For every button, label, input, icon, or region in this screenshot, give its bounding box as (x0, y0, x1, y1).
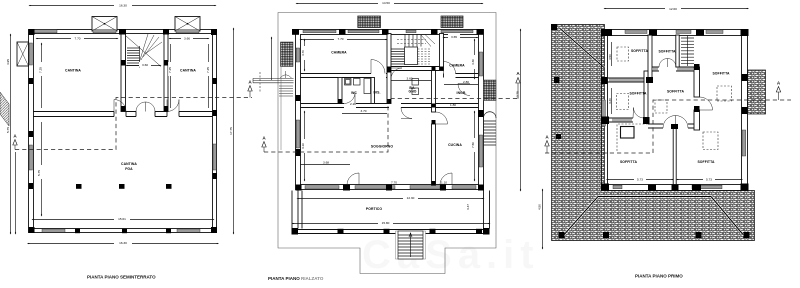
svg-text:CaSa.it: CaSa.it (362, 233, 540, 277)
svg-text:3.47: 3.47 (466, 204, 470, 210)
svg-text:WC: WC (351, 91, 357, 95)
svg-text:5.75: 5.75 (6, 127, 10, 133)
svg-text:5.73: 5.73 (637, 177, 643, 181)
svg-text:SOFFITTA: SOFFITTA (620, 160, 638, 164)
svg-text:7.25: 7.25 (168, 67, 172, 73)
svg-text:7.70: 7.70 (74, 37, 80, 41)
svg-text:3.68: 3.68 (323, 161, 329, 165)
svg-text:15.80: 15.80 (382, 221, 390, 225)
svg-text:2.80: 2.80 (463, 80, 469, 84)
svg-text:2.20: 2.20 (350, 102, 356, 106)
svg-text:5.73: 5.73 (706, 177, 712, 181)
svg-text:3.60: 3.60 (406, 77, 412, 81)
svg-text:4.50: 4.50 (538, 204, 542, 210)
svg-text:CANTINA: CANTINA (121, 162, 137, 166)
svg-text:SOFFITTA: SOFFITTA (631, 49, 649, 53)
svg-text:17.75: 17.75 (229, 127, 233, 135)
svg-text:4.70: 4.70 (301, 50, 305, 56)
svg-text:14.50: 14.50 (382, 1, 390, 5)
svg-text:7.70: 7.70 (337, 37, 343, 41)
svg-text:3.65: 3.65 (451, 35, 457, 39)
svg-text:GNO: GNO (408, 90, 416, 94)
svg-text:13.75: 13.75 (516, 91, 520, 99)
svg-text:7.50: 7.50 (471, 142, 475, 148)
svg-text:3.70: 3.70 (360, 109, 366, 113)
svg-text:3.66: 3.66 (184, 37, 190, 41)
svg-text:PIANTA PIANO RIALZATO: PIANTA PIANO RIALZATO (268, 276, 324, 281)
svg-text:SOFFITTA: SOFFITTA (697, 160, 715, 164)
svg-text:SOGGIORNO: SOGGIORNO (371, 145, 393, 149)
svg-text:PIANTA PIANO PRIMO: PIANTA PIANO PRIMO (635, 274, 683, 279)
svg-text:1.80: 1.80 (450, 103, 456, 107)
svg-text:SOFFITTA: SOFFITTA (658, 50, 676, 54)
svg-text:SOFFITTA: SOFFITTA (667, 90, 685, 94)
svg-text:PORTICO: PORTICO (366, 207, 382, 211)
svg-text:16.30: 16.30 (119, 241, 127, 245)
svg-text:15.61: 15.61 (118, 217, 126, 221)
svg-text:4.95: 4.95 (6, 59, 10, 65)
svg-text:CUCINA: CUCINA (448, 143, 462, 147)
svg-text:INGR.: INGR. (457, 91, 467, 95)
svg-text:16.30: 16.30 (119, 3, 127, 7)
svg-text:DIS.: DIS. (374, 91, 381, 95)
svg-text:CANTINA: CANTINA (65, 69, 81, 73)
svg-text:1.10: 1.10 (441, 181, 447, 185)
svg-text:12.30: 12.30 (407, 196, 415, 200)
svg-text:FGA: FGA (125, 167, 133, 171)
svg-text:7.70: 7.70 (391, 181, 397, 185)
svg-text:3.10: 3.10 (301, 143, 305, 149)
svg-text:CANTINA: CANTINA (180, 69, 196, 73)
svg-text:CAMERA: CAMERA (331, 51, 347, 55)
svg-text:SOFFITTA: SOFFITTA (629, 92, 647, 96)
svg-text:3.60: 3.60 (142, 63, 148, 67)
svg-text:PIANTA PIANO SEMINTERRATO: PIANTA PIANO SEMINTERRATO (87, 275, 156, 280)
svg-text:3.40: 3.40 (608, 98, 612, 104)
svg-text:CAMERA: CAMERA (449, 64, 465, 68)
svg-text:4.50: 4.50 (608, 54, 612, 60)
svg-text:7.25: 7.25 (39, 67, 43, 73)
svg-text:12.60: 12.60 (669, 7, 677, 11)
svg-text:5.75: 5.75 (37, 170, 41, 176)
svg-text:7.25: 7.25 (206, 67, 210, 73)
svg-text:4.30: 4.30 (471, 59, 475, 65)
svg-text:SOFFITTA: SOFFITTA (712, 72, 730, 76)
